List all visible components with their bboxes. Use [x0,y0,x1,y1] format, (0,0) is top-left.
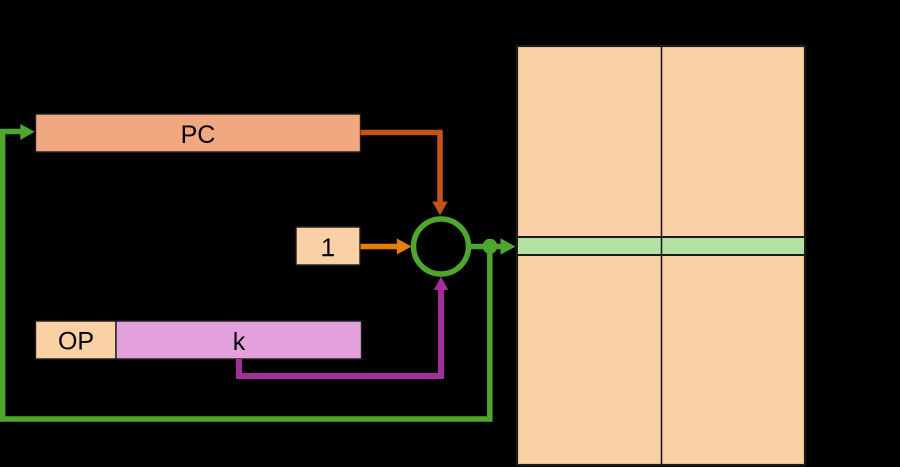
constant box 1 [296,227,360,265]
arrowhead purple into adder bottom [434,277,449,291]
memory M [517,46,805,465]
svg-text:PC: PC [181,121,216,149]
svg-text:OP: OP [58,328,94,356]
svg-text:1: 1 [321,234,335,262]
wire green adder output [468,244,502,250]
register IR: k field [116,321,362,359]
wire green arrowhead into PC [20,124,35,140]
register PC [36,114,361,152]
wire orange 1 to adder [361,244,399,250]
adder circle [414,219,469,274]
node junction dot [483,239,498,254]
arrowhead rust into adder top [432,202,447,216]
svg-text:k: k [233,328,246,356]
memory selected row (green) [517,237,805,255]
register IR: OP field [36,321,117,359]
wire rust PC to adder [361,133,441,203]
arrowhead green into memory [501,238,516,254]
wire purple k to adder [239,290,441,376]
wire green feedback loop (adder output to PC input) [3,132,490,420]
arrowhead orange into adder left [397,239,412,255]
